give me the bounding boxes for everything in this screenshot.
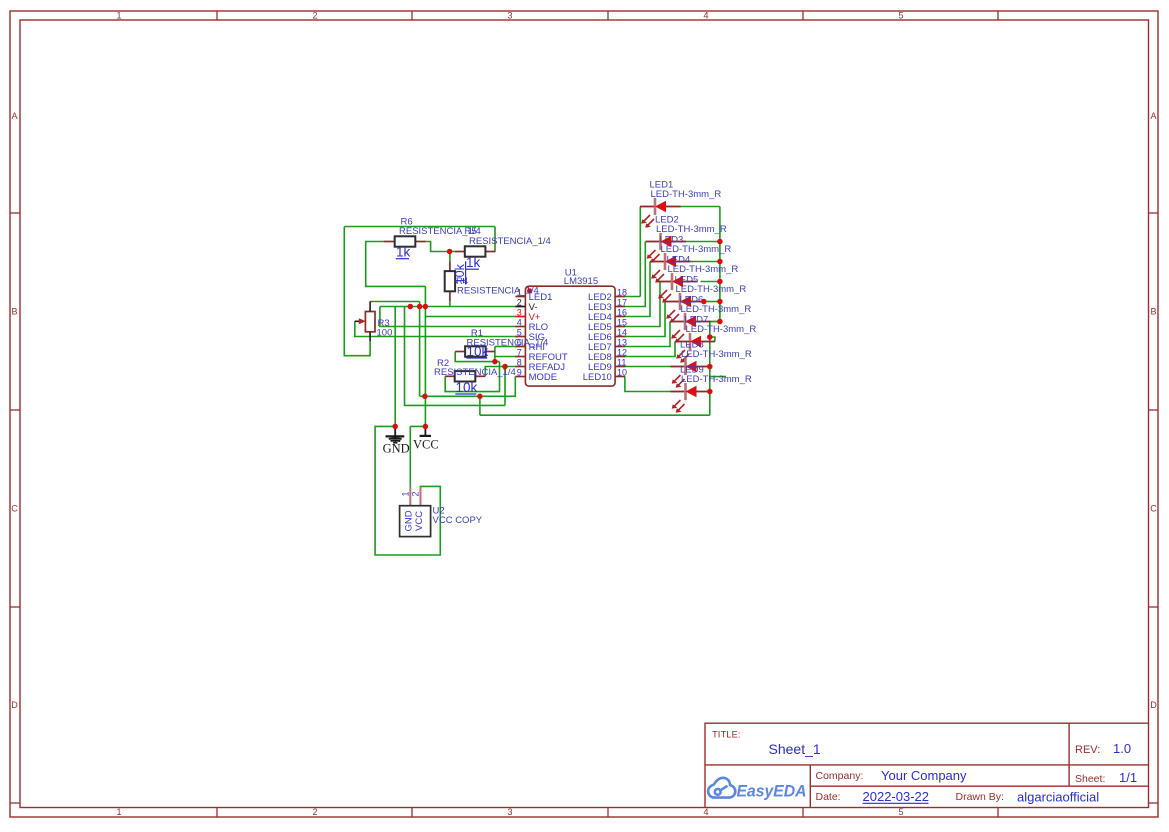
title block outline xyxy=(705,723,1149,807)
U2 pin 2 stub xyxy=(420,487,422,506)
U1 pin 16 LED4 xyxy=(615,316,625,318)
svg-text:2022-03-22: 2022-03-22 xyxy=(863,789,930,804)
svg-text:1: 1 xyxy=(116,11,121,21)
wire LED6 anode xyxy=(711,321,720,323)
junction (709.8,337) xyxy=(707,334,713,340)
svg-text:LED-TH-3mm_R: LED-TH-3mm_R xyxy=(681,304,752,315)
U1 pin 18 LED2 xyxy=(615,296,625,298)
wire pin18 to LED1 xyxy=(625,207,640,297)
svg-text:LED-TH-3mm_R: LED-TH-3mm_R xyxy=(668,264,739,275)
row ticks left xyxy=(10,212,20,214)
wire right bus x=719.9 xyxy=(719,207,721,322)
wire pin9 MODE drop xyxy=(420,377,516,397)
wire drop x=404.5 to bus y=405.4 xyxy=(405,307,506,406)
resistor R2 leads xyxy=(445,375,455,377)
wire pin3 V+ from VCC rail xyxy=(425,316,516,318)
svg-text:GND: GND xyxy=(404,510,415,531)
resistor R1 leads xyxy=(455,351,465,353)
svg-text:B: B xyxy=(11,307,17,317)
svg-text:Drawn By:: Drawn By: xyxy=(956,791,1004,803)
U2 body xyxy=(400,506,431,537)
U1 pin 5 SIG xyxy=(515,336,525,338)
potentiometer R3 wiper arrow xyxy=(355,320,363,322)
svg-text:B: B xyxy=(1150,307,1156,317)
wire bottom bus y=415.2 xyxy=(480,414,710,416)
svg-text:TITLE:: TITLE: xyxy=(712,730,741,741)
svg-text:LED10: LED10 xyxy=(583,372,612,383)
svg-text:LED-TH-3mm_R: LED-TH-3mm_R xyxy=(686,324,757,335)
svg-text:A: A xyxy=(1150,111,1156,121)
junction (719.9,301.5) xyxy=(717,299,723,305)
title block rev/sheet divider xyxy=(1068,723,1070,786)
ground symbol GND xyxy=(386,426,405,442)
resistor R6 body xyxy=(395,236,416,246)
svg-text:3: 3 xyxy=(507,11,512,21)
svg-text:5: 5 xyxy=(517,328,522,338)
wire pin10 to LED9 xyxy=(625,377,671,392)
junction (479.9,396.3) xyxy=(477,394,483,400)
junction (425.4,306.5) xyxy=(423,304,429,310)
svg-text:1: 1 xyxy=(400,491,410,496)
svg-text:VCC COPY: VCC COPY xyxy=(433,515,483,526)
U1 pin 14 LED6 xyxy=(615,336,625,338)
U1 pin 11 LED9 xyxy=(615,366,625,368)
op-amp U1 LM3915 body xyxy=(525,286,615,386)
wire pin13 to LED6 xyxy=(625,322,670,347)
wire LED4 anode xyxy=(701,281,720,283)
svg-text:2: 2 xyxy=(312,807,317,817)
U1 pin 4 RLO xyxy=(515,326,525,328)
U2 pin 1 stub xyxy=(409,487,411,506)
resistor R4 leads xyxy=(449,261,451,271)
svg-text:2: 2 xyxy=(411,491,421,496)
svg-text:1: 1 xyxy=(116,807,121,817)
svg-text:5: 5 xyxy=(898,807,903,817)
svg-text:18: 18 xyxy=(617,288,627,298)
wire R4 top xyxy=(449,252,451,262)
wire R2 right to pin8 REFADJ xyxy=(485,367,516,377)
LED LED5 symbol xyxy=(665,293,706,323)
svg-text:10k: 10k xyxy=(467,344,489,359)
svg-text:algarciaofficial: algarciaofficial xyxy=(1017,790,1099,805)
svg-text:LED-TH-3mm_R: LED-TH-3mm_R xyxy=(656,224,727,235)
svg-text:17: 17 xyxy=(617,298,627,308)
svg-text:3: 3 xyxy=(517,308,522,318)
wire pin11 to LED8 xyxy=(625,366,671,368)
title block row divider 1 xyxy=(705,764,1149,766)
svg-text:11: 11 xyxy=(617,358,626,368)
svg-text:GND: GND xyxy=(383,441,410,455)
U1 pin 7 REFOUT xyxy=(515,356,525,358)
wire top-left bus y=226.5 xyxy=(344,226,495,228)
svg-text:A: A xyxy=(11,111,17,121)
svg-text:1k: 1k xyxy=(396,245,411,260)
svg-text:Your Company: Your Company xyxy=(881,768,967,783)
svg-text:LED-TH-3mm_R: LED-TH-3mm_R xyxy=(681,349,752,360)
wire pin17 to LED2 xyxy=(625,242,645,307)
LED LED4 symbol xyxy=(657,273,698,303)
wire V- bus y=306.5 xyxy=(380,306,516,308)
svg-text:Sheet:: Sheet: xyxy=(1075,773,1105,785)
svg-text:D: D xyxy=(11,700,18,710)
LED LED6 symbol xyxy=(670,313,711,343)
resistor R6 leads xyxy=(384,241,395,243)
svg-text:10: 10 xyxy=(617,368,627,378)
LED LED3 symbol xyxy=(650,253,691,283)
wire left rail x=344.3 xyxy=(344,227,370,356)
junction (719.9,261.5) xyxy=(717,259,723,265)
U1 pin 2 V- xyxy=(515,306,525,308)
svg-text:4: 4 xyxy=(517,318,522,328)
svg-text:14: 14 xyxy=(617,328,627,338)
wire R5 right riser xyxy=(494,227,496,252)
wire pin8 drop to bus y=405.4 xyxy=(504,367,506,406)
wire R4 bottom to V- bus xyxy=(449,301,451,306)
svg-text:Company:: Company: xyxy=(816,770,864,782)
svg-text:7: 7 xyxy=(517,348,522,358)
wire LED2 anode xyxy=(686,241,720,243)
wire pin16 to LED3 xyxy=(625,262,650,317)
wire stub y=376.6 right xyxy=(710,376,726,378)
svg-text:C: C xyxy=(11,504,18,514)
wire LED3 anode xyxy=(691,261,720,263)
wire R1 left drop xyxy=(455,352,499,362)
wire LED1 anode to right bus xyxy=(680,206,720,208)
svg-text:C: C xyxy=(1150,504,1157,514)
svg-text:3: 3 xyxy=(507,807,512,817)
wire drop x=419.6 xyxy=(419,302,421,397)
power symbol VCC xyxy=(424,426,426,436)
svg-text:1/1: 1/1 xyxy=(1119,770,1137,785)
svg-text:2: 2 xyxy=(517,298,522,308)
U1 pin 6 RHI xyxy=(515,346,525,348)
svg-text:10k: 10k xyxy=(456,380,478,395)
U1 pin 1 LED1 xyxy=(515,296,525,298)
U1 pin 17 LED3 xyxy=(615,306,625,308)
resistor R4 body xyxy=(445,271,455,291)
svg-text:RESISTENCIA_1/4: RESISTENCIA_1/4 xyxy=(469,236,551,247)
junction (449.6,251.5) xyxy=(447,249,453,255)
title block logo cell divider xyxy=(809,765,811,808)
column ticks top xyxy=(216,11,218,20)
junction (719.9,321.5) xyxy=(717,319,723,325)
svg-text:16: 16 xyxy=(617,308,627,318)
wire R3 wiper to pin5 SIG xyxy=(355,321,516,336)
junction (505,366.5) xyxy=(502,364,508,370)
resistor R2 body xyxy=(455,371,476,381)
svg-text:Sheet_1: Sheet_1 xyxy=(769,741,821,757)
potentiometer R3 body xyxy=(365,312,375,332)
U2 pin 2 loop from GND xyxy=(375,426,440,555)
LED LED9 symbol xyxy=(671,383,710,413)
wire R6 right jog to R5 xyxy=(426,242,455,252)
U1 pin 10 LED10 xyxy=(615,376,625,378)
junction (395.2,426.4) xyxy=(392,424,398,430)
wire R2 bottom loop xyxy=(445,362,499,392)
junction (719.9,281.5) xyxy=(717,279,723,285)
U2 pin 1 wire from VCC xyxy=(410,426,425,487)
svg-text:LED-TH-3mm_R: LED-TH-3mm_R xyxy=(676,284,747,295)
junction (494.9,361.6) xyxy=(492,359,498,365)
svg-text:4: 4 xyxy=(703,807,708,817)
junction (419.6,306.5) xyxy=(417,304,423,310)
wire R6 left to VCC loop xyxy=(366,242,426,287)
junction (425.4,426.4) xyxy=(423,424,429,430)
LED LED7 symbol xyxy=(675,333,715,363)
svg-text:2: 2 xyxy=(312,11,317,21)
wire LED5 anode xyxy=(706,301,720,303)
svg-text:LED-TH-3mm_R: LED-TH-3mm_R xyxy=(651,189,722,200)
LED LED2 symbol xyxy=(646,233,687,263)
svg-text:15: 15 xyxy=(617,318,627,328)
svg-text:13: 13 xyxy=(617,338,627,348)
junction at U1 pin1 corner xyxy=(527,288,532,293)
wire VCC rail x=425.4 xyxy=(424,286,426,426)
resistor R5 leads xyxy=(455,251,465,253)
svg-text:12: 12 xyxy=(617,348,627,358)
junction (410.3,306.5) xyxy=(408,304,414,310)
column ticks bottom xyxy=(216,808,218,818)
resistor R1 body xyxy=(465,346,486,356)
svg-text:4: 4 xyxy=(703,11,708,21)
junction (703.8,301.5) xyxy=(701,299,707,305)
svg-text:EasyEDA: EasyEDA xyxy=(737,782,807,801)
U1 pin 13 LED7 xyxy=(615,346,625,348)
title block row divider 2 xyxy=(810,785,1148,787)
svg-text:8: 8 xyxy=(517,358,522,368)
wire pin4 RLO xyxy=(380,307,516,327)
svg-text:D: D xyxy=(1150,700,1157,710)
svg-text:LED-TH-3mm_R: LED-TH-3mm_R xyxy=(681,374,752,385)
wire right bus x=709.8 xyxy=(710,322,720,416)
U1 pin 15 LED5 xyxy=(615,326,625,328)
svg-text:9: 9 xyxy=(517,368,522,378)
svg-text:LED-TH-3mm_R: LED-TH-3mm_R xyxy=(661,244,732,255)
wire LED7 anode hook xyxy=(710,337,715,342)
svg-text:1.0: 1.0 xyxy=(1113,741,1131,756)
resistor R5 body xyxy=(465,246,486,256)
svg-text:MODE: MODE xyxy=(529,372,558,383)
wire bottom bus riser x=479.9 xyxy=(479,396,481,415)
wire R3 top to bus xyxy=(370,301,420,303)
potentiometer R3 pins xyxy=(369,302,371,312)
wire GND rail x=395.2 xyxy=(394,307,396,427)
wire pin14 to LED5 xyxy=(625,302,665,337)
LED LED8 symbol xyxy=(671,358,710,388)
svg-text:Date:: Date: xyxy=(816,791,841,803)
svg-text:5: 5 xyxy=(898,11,903,21)
U1 pin 12 LED8 xyxy=(615,356,625,358)
junction (709.8,391.5) xyxy=(707,389,713,395)
U1 pin 3 V+ xyxy=(515,316,525,318)
U1 pin 9 MODE xyxy=(515,376,525,378)
U1 pin 8 REFADJ xyxy=(515,366,525,368)
svg-text:VCC: VCC xyxy=(413,437,439,451)
junction (424.9,396.3) xyxy=(422,394,428,400)
svg-text:100: 100 xyxy=(377,328,393,339)
wire pin15 to LED4 xyxy=(625,282,660,327)
svg-text:VCC: VCC xyxy=(414,511,425,531)
junction (709.8,366.5) xyxy=(707,364,713,370)
svg-text:REV:: REV: xyxy=(1075,744,1100,756)
svg-text:1k: 1k xyxy=(466,255,481,270)
wire R1 right to pin6/pin7 xyxy=(495,347,516,362)
EasyEDA logo cloud xyxy=(708,778,735,798)
junction (719.9,241.5) xyxy=(717,239,723,245)
wire pin12 to LED7 xyxy=(625,342,675,357)
svg-text:RESISTENCIA_1/4: RESISTENCIA_1/4 xyxy=(457,286,539,297)
row ticks right xyxy=(1149,212,1159,214)
svg-text:LM3915: LM3915 xyxy=(564,276,598,287)
LED LED1 symbol xyxy=(640,198,681,228)
